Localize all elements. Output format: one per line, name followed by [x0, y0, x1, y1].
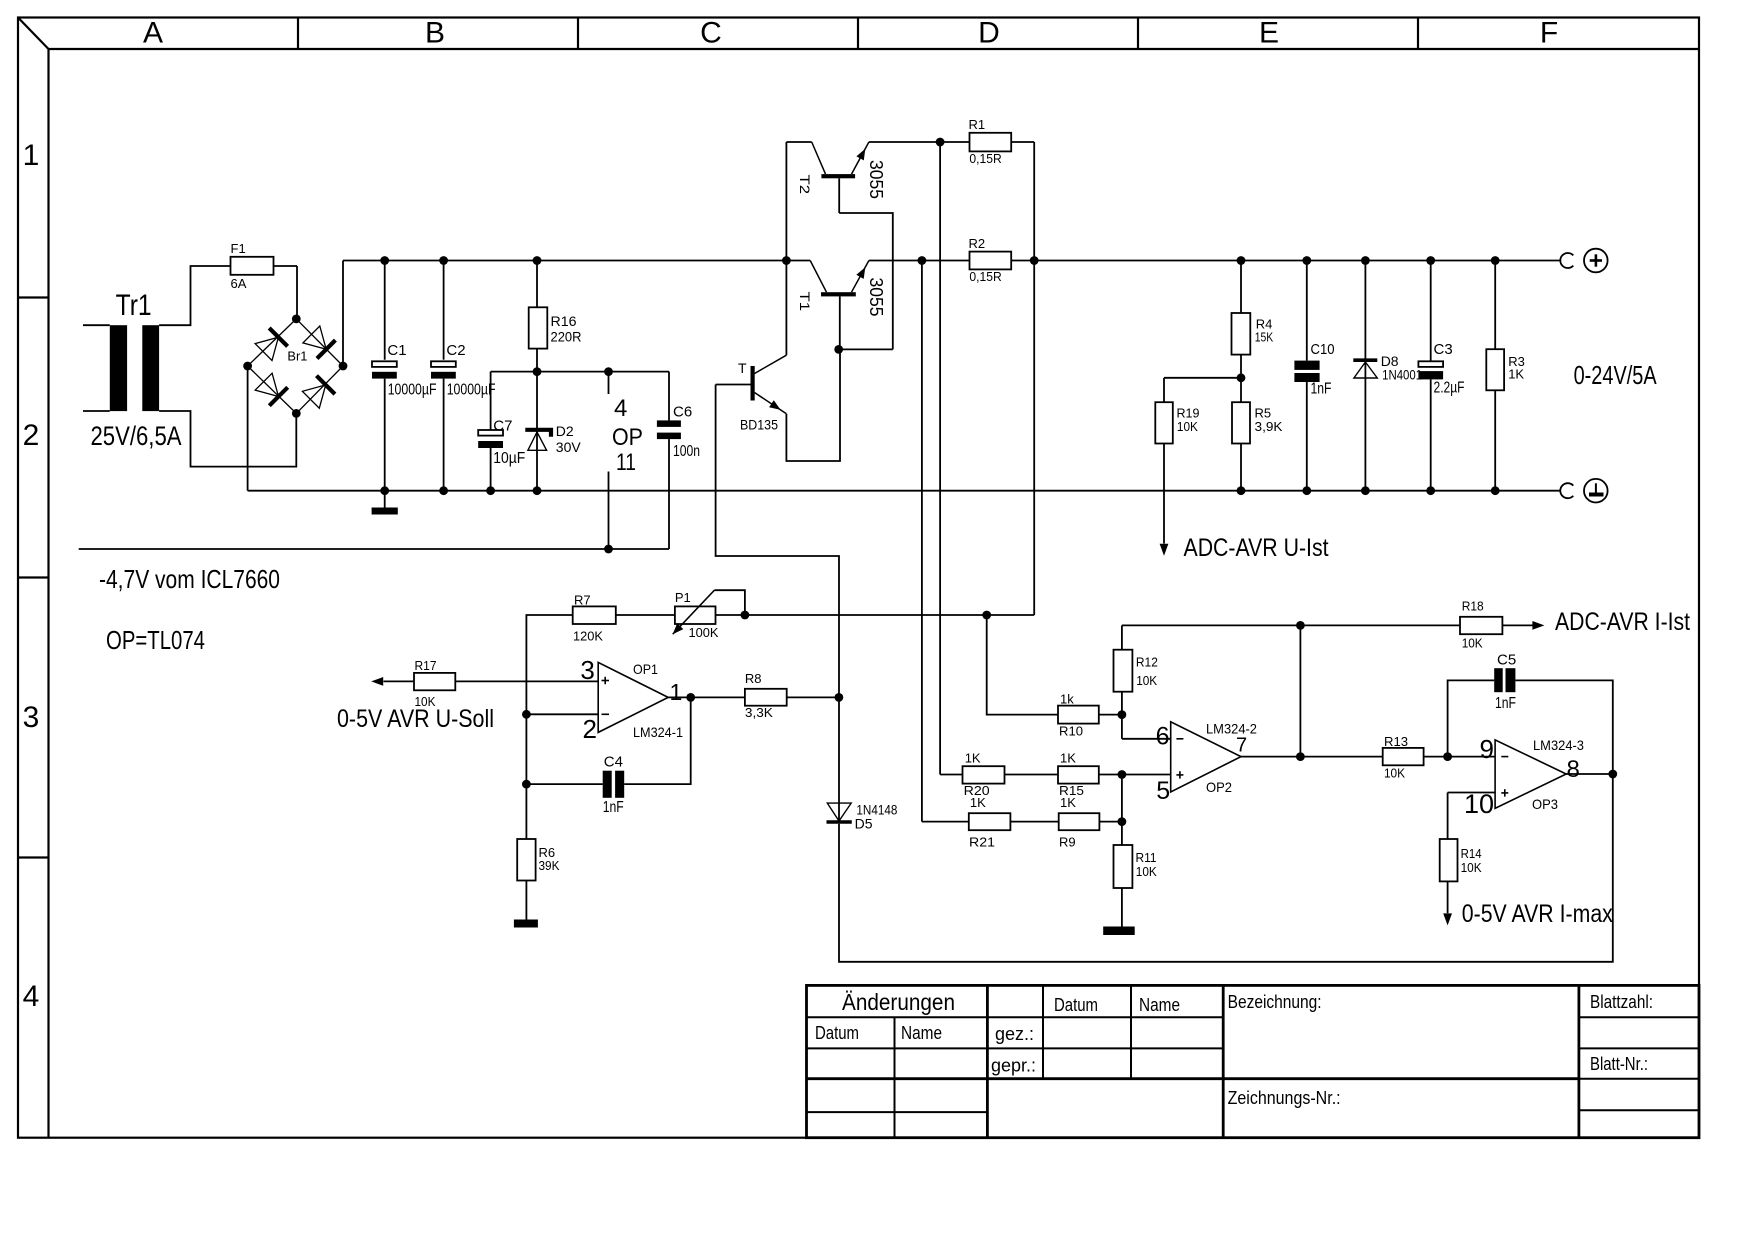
fuse F1 6A [231, 241, 274, 291]
svg-text:R9: R9 [1059, 835, 1076, 850]
junction [1361, 256, 1370, 265]
resistor R12 10K [1114, 650, 1158, 692]
svg-text:E: E [1259, 17, 1279, 50]
junction [533, 486, 542, 495]
resistor R20 1K [963, 751, 1005, 799]
wire C5 right to OP3 output [1515, 680, 1612, 774]
svg-text:1k: 1k [1060, 692, 1074, 707]
wire pin5 node down to R11 [1121, 775, 1123, 846]
wire C1 top [384, 261, 386, 360]
wire C2 bottom [443, 379, 445, 491]
svg-text:1K: 1K [965, 751, 981, 766]
svg-text:OP1: OP1 [633, 661, 658, 677]
junction [604, 367, 613, 376]
svg-text:10µF: 10µF [493, 450, 525, 467]
svg-text:10K: 10K [1136, 673, 1157, 688]
zener diode D2 30V [525, 423, 581, 455]
wire OP1 output to R8 [668, 696, 745, 698]
wire R12 bottom to OP2 pin6 [1121, 692, 1123, 739]
capacitor C10 1nF [1294, 341, 1334, 398]
svg-text:R14: R14 [1461, 846, 1482, 861]
svg-text:BD135: BD135 [740, 417, 778, 433]
wire OP2 output up to R18 line [1299, 625, 1301, 756]
transistor T1 3055 [797, 261, 886, 317]
wire base node across [839, 348, 893, 350]
svg-text:Bezeichnung:: Bezeichnung: [1228, 992, 1322, 1012]
capacitor C3 2.2uF [1418, 341, 1464, 397]
junction [1302, 256, 1311, 265]
node 0-5V AVR U-Soll input arrow [371, 677, 383, 686]
svg-text:R12: R12 [1136, 655, 1158, 670]
wire OP2 pin6 [1122, 738, 1170, 740]
svg-text:4: 4 [23, 980, 40, 1013]
junction [1118, 817, 1127, 826]
wire raw +24V rail [343, 260, 810, 262]
wire R20 to R15 [1005, 774, 1059, 776]
capacitor C4 1nF [603, 754, 624, 817]
wire C6 top [668, 372, 670, 421]
junction [1302, 486, 1311, 495]
junction [1443, 752, 1452, 761]
wire R7 left to OP1 pin2 and R6 [526, 615, 572, 839]
junction bridge AC1 node [292, 315, 301, 324]
wire T2 emitter to R1 [869, 141, 970, 143]
wire R16 top [536, 261, 538, 308]
wire BD135 base drive from OP1 output node [716, 385, 839, 698]
wire current sense line to R21 [921, 261, 923, 822]
wire fuse F1 to bridge AC1 [274, 265, 298, 267]
wire transformer secondary top to fuse F1 [159, 266, 230, 325]
wire OP pin11 supply [608, 472, 610, 550]
svg-text:P1: P1 [675, 590, 691, 605]
svg-text:2: 2 [583, 714, 597, 744]
svg-text:1: 1 [23, 139, 40, 172]
junction raw rail / T2 collector [782, 256, 791, 265]
svg-text:8: 8 [1567, 756, 1580, 783]
wire C2 top [443, 261, 445, 360]
svg-text:6: 6 [1156, 723, 1170, 751]
resistor R4 15K [1232, 313, 1274, 355]
resistor R7 120K [573, 593, 616, 644]
svg-text:15K: 15K [1255, 330, 1274, 345]
wire R9 to R11 node [1099, 821, 1122, 823]
svg-text:T2: T2 [797, 175, 813, 195]
junction [380, 256, 389, 265]
svg-text:11: 11 [616, 449, 636, 476]
node ADC-AVR U-Ist output arrow [1160, 544, 1169, 556]
junction [1030, 256, 1039, 265]
wire R19 to ADC output [1163, 444, 1165, 544]
svg-text:6A: 6A [231, 276, 247, 291]
svg-text:0-24V/5A: 0-24V/5A [1574, 360, 1658, 390]
junction T2 emitter / current sense [936, 138, 945, 147]
wire R3 bottom [1494, 390, 1496, 490]
svg-text:C2: C2 [446, 342, 465, 359]
wire arrow to R17 [384, 680, 415, 682]
svg-text:R21: R21 [969, 835, 995, 850]
wire P1 right [716, 614, 745, 616]
resistor R10 1k [1058, 692, 1099, 739]
svg-text:2: 2 [23, 419, 40, 452]
wire OP3 pin10 [1448, 792, 1496, 794]
wire C10 top [1306, 261, 1308, 361]
junction [486, 486, 495, 495]
svg-text:R17: R17 [415, 658, 437, 673]
resistor R14 10K [1440, 839, 1482, 881]
wire C3 top [1430, 261, 1432, 362]
resistor R8 3,3K [745, 671, 787, 720]
wire to R20 [940, 774, 962, 776]
wire R14 to I-max input [1447, 881, 1449, 913]
svg-text:OP=TL074: OP=TL074 [106, 625, 205, 655]
wire R16 bottom [536, 349, 538, 372]
wire R4 top [1240, 261, 1242, 314]
svg-text:1K: 1K [1060, 795, 1076, 810]
wire R1 to output rail and voltage sense [1033, 142, 1035, 615]
wire to R21 [922, 821, 969, 823]
wire C7 bottom [490, 448, 492, 491]
transistor T BD135 [738, 355, 786, 432]
svg-text:R10: R10 [1059, 724, 1083, 739]
svg-text:220R: 220R [551, 330, 582, 345]
wire output +rail [869, 260, 1561, 262]
transformer Tr1 [91, 289, 182, 451]
wire R11 bottom [1121, 888, 1123, 927]
svg-text:Datum: Datum [815, 1023, 859, 1043]
wire R18 to ADC arrow [1502, 624, 1532, 626]
junction OP3 output node [1608, 770, 1617, 779]
svg-text:F: F [1540, 17, 1558, 50]
svg-text:10: 10 [1464, 789, 1494, 819]
svg-text:D5: D5 [855, 816, 873, 832]
wire R10 to R12 node [1099, 714, 1122, 716]
junction [1118, 710, 1127, 719]
svg-text:0-5V AVR I-max: 0-5V AVR I-max [1462, 900, 1613, 928]
terminal output ground [1560, 479, 1607, 503]
wire R3 top [1494, 261, 1496, 350]
svg-text:OP: OP [612, 424, 643, 451]
svg-text:3055: 3055 [866, 160, 886, 199]
junction [439, 486, 448, 495]
junction [522, 780, 531, 789]
svg-text:C: C [700, 17, 722, 50]
wire R5 bottom [1240, 444, 1242, 491]
wire transformer primary bottom stub [83, 410, 110, 412]
svg-text:R18: R18 [1462, 599, 1484, 614]
resistor R2 0,15R [969, 236, 1012, 284]
capacitor C7 10uF [478, 418, 525, 468]
svg-text:T1: T1 [797, 292, 813, 312]
svg-text:Blattzahl:: Blattzahl: [1590, 992, 1653, 1012]
wire C10 bottom [1306, 382, 1308, 491]
resistor R21 1K [969, 795, 1011, 850]
svg-text:Br1: Br1 [287, 348, 307, 363]
ground [514, 920, 538, 928]
wire D5 cathode to OP3 output [839, 774, 1613, 962]
wire C6 bottom to -4.7V net [668, 439, 670, 549]
op-amp U2 OP2 LM324-2 [1156, 721, 1257, 805]
node ADC-AVR I-Ist output arrow [1532, 621, 1544, 630]
svg-text:25V/6,5A: 25V/6,5A [91, 421, 182, 451]
resistor R17 10K [414, 658, 455, 709]
wire R8 to BD135 drive node [787, 696, 839, 698]
svg-text:C3: C3 [1434, 341, 1453, 358]
bridge rectifier Br1 [248, 319, 343, 414]
svg-text:LM324-1: LM324-1 [633, 725, 683, 740]
wire feedback node to output sense line [745, 614, 1034, 616]
svg-text:10K: 10K [1384, 766, 1405, 781]
svg-text:Änderungen: Änderungen [842, 989, 955, 1015]
ground [372, 491, 398, 515]
junction [1361, 486, 1370, 495]
svg-text:R1: R1 [969, 117, 986, 132]
svg-text:4: 4 [614, 395, 627, 422]
wire OP pin4 supply [608, 372, 610, 394]
wire R13 to OP3 pin9 [1424, 756, 1496, 758]
wire C4 right to OP1 output [624, 697, 691, 784]
wire OP2 output to R13 [1241, 756, 1383, 758]
terminal output plus [1560, 249, 1607, 273]
svg-text:Zeichnungs-Nr.:: Zeichnungs-Nr.: [1228, 1088, 1341, 1108]
wire 0V rail [248, 490, 1561, 492]
wire P1 wiper to feedback node [714, 590, 745, 615]
resistor R6 39K [517, 839, 560, 881]
resistor R5 3,9K [1232, 402, 1283, 443]
resistor R11 10K [1114, 845, 1158, 888]
svg-text:D2: D2 [556, 423, 574, 439]
junction [1491, 486, 1500, 495]
wire R21 to R9 [1010, 821, 1058, 823]
svg-text:10K: 10K [1136, 864, 1157, 879]
wire OP3 output [1566, 773, 1613, 775]
resistor R9 1K [1059, 795, 1100, 850]
junction [604, 545, 613, 554]
svg-text:10K: 10K [1462, 636, 1483, 651]
wire up to T2 base [839, 213, 893, 349]
node 0-5V AVR I-max input arrow [1443, 913, 1452, 925]
svg-text:Name: Name [901, 1023, 942, 1043]
wire R17 to OP1 pin3 [455, 680, 598, 682]
svg-text:2.2µF: 2.2µF [1434, 380, 1465, 397]
junction [835, 693, 844, 702]
op-amp U1 OP1 LM324-1 [580, 655, 683, 744]
diode D8 1N4001 [1353, 353, 1422, 382]
junction bridge plus node [339, 362, 348, 371]
svg-text:10000µF: 10000µF [447, 382, 496, 399]
svg-text:gez.:: gez.: [995, 1024, 1034, 1044]
svg-text:1N4001: 1N4001 [1382, 366, 1422, 382]
svg-text:R8: R8 [745, 671, 762, 686]
wire bridge minus down to 0V rail [247, 366, 249, 491]
svg-text:0,15R: 0,15R [969, 151, 1001, 166]
resistor R13 10K [1383, 734, 1424, 781]
svg-text:R11: R11 [1136, 850, 1157, 865]
resistor R3 1K [1486, 349, 1525, 390]
svg-text:C1: C1 [387, 342, 406, 359]
transistor T2 3055 [797, 142, 886, 199]
svg-text:9: 9 [1480, 734, 1494, 764]
junction [1296, 621, 1305, 630]
capacitor C1 10000uF [372, 342, 437, 398]
svg-text:LM324-2: LM324-2 [1206, 721, 1257, 736]
svg-text:10000µF: 10000µF [388, 382, 437, 399]
wire R12 top [1121, 625, 1123, 649]
svg-text:ADC-AVR I-Ist: ADC-AVR I-Ist [1555, 608, 1690, 636]
svg-text:3,3K: 3,3K [745, 705, 773, 720]
resistor R18 10K [1460, 599, 1502, 651]
wire T2 base stub [838, 178, 840, 213]
svg-text:1K: 1K [1508, 367, 1524, 382]
wire C1 bottom [384, 379, 386, 491]
junction [1426, 256, 1435, 265]
wire transformer primary top stub [83, 324, 110, 326]
potentiometer P1 100K [673, 590, 719, 640]
svg-text:F1: F1 [231, 241, 246, 256]
svg-text:Name: Name [1139, 995, 1180, 1015]
diode D5 1N4148 [827, 802, 898, 832]
svg-text:1K: 1K [1060, 751, 1076, 766]
svg-text:3: 3 [23, 701, 40, 734]
svg-text:39K: 39K [539, 858, 560, 873]
wire R12 feedback to R18 / OP2 output [1122, 624, 1460, 626]
svg-text:3,9K: 3,9K [1255, 419, 1283, 434]
svg-text:R13: R13 [1384, 734, 1408, 749]
wire OP supply node [491, 371, 669, 373]
wire R6 bottom [525, 881, 527, 920]
wire R4 bottom to R5 [1240, 355, 1242, 403]
svg-text:1K: 1K [970, 795, 986, 810]
junction [439, 256, 448, 265]
junction [522, 710, 531, 719]
junction [380, 486, 389, 495]
wire voltage setpoint to R10 [987, 615, 1058, 715]
junction [1491, 256, 1500, 265]
wire R7 to P1 [616, 614, 675, 616]
wire C7 top [490, 372, 492, 430]
resistor R1 0,15R [969, 117, 1012, 166]
svg-text:R7: R7 [574, 593, 591, 608]
wire down to bridge AC1 node [296, 266, 298, 319]
wire D2 cathode-anode [536, 372, 538, 491]
wire OP1 pin2 [526, 713, 598, 715]
svg-text:30V: 30V [556, 439, 582, 455]
svg-text:Tr1: Tr1 [116, 289, 152, 322]
junction bridge minus node [243, 362, 252, 371]
ground [1103, 927, 1135, 936]
junction [982, 611, 991, 620]
svg-text:1nF: 1nF [603, 799, 624, 816]
svg-text:1nF: 1nF [1495, 695, 1516, 712]
resistor R16 220R [529, 307, 582, 348]
svg-text:C4: C4 [604, 754, 623, 771]
junction [533, 367, 542, 376]
wire D5 anode from OP1 output node [838, 697, 840, 822]
wire BD135 collector up to T2 collector [785, 142, 787, 355]
wire bridge plus up to raw +rail [342, 261, 344, 367]
svg-text:0,15R: 0,15R [969, 269, 1001, 284]
svg-text:D: D [978, 17, 1000, 50]
svg-text:R16: R16 [551, 314, 577, 329]
junction [834, 345, 843, 354]
svg-text:LM324-3: LM324-3 [1533, 738, 1584, 753]
junction [533, 256, 542, 265]
wire transformer secondary bottom to bridge AC2 node [159, 411, 296, 467]
junction [1426, 486, 1435, 495]
svg-text:1nF: 1nF [1311, 381, 1332, 398]
wire BD135 emitter to T1 T2 base node [786, 349, 840, 461]
wire T2 emitter sense line to R20 [939, 142, 941, 775]
wire R15 to OP2 pin5 [1099, 774, 1170, 776]
svg-text:100n: 100n [673, 443, 700, 460]
capacitor C6 100n [657, 404, 700, 461]
capacitor C2 10000uF [431, 342, 496, 398]
svg-text:7: 7 [1236, 735, 1247, 757]
wire C5 left from R13 node [1448, 680, 1495, 756]
svg-text:OP2: OP2 [1206, 779, 1232, 795]
svg-text:1: 1 [670, 679, 683, 705]
junction [741, 611, 750, 620]
svg-text:A: A [143, 17, 163, 50]
wire R1 right [1011, 141, 1034, 143]
svg-text:100K: 100K [689, 625, 719, 640]
svg-text:10K: 10K [1461, 860, 1482, 875]
svg-text:5: 5 [1156, 777, 1170, 805]
svg-text:C5: C5 [1497, 652, 1516, 669]
op-amp supply pins 4 OP 11 [612, 395, 643, 476]
wire T1 base stub [839, 296, 841, 349]
svg-text:gepr.:: gepr.: [991, 1056, 1036, 1076]
wire C4 left [526, 783, 602, 785]
svg-text:C7: C7 [493, 418, 512, 435]
svg-text:Blatt-Nr.:: Blatt-Nr.: [1590, 1054, 1648, 1074]
svg-text:-4,7V vom ICL7660: -4,7V vom ICL7660 [99, 564, 280, 594]
svg-text:ADC-AVR U-Ist: ADC-AVR U-Ist [1184, 534, 1329, 562]
svg-text:10K: 10K [1177, 419, 1198, 434]
junction bridge AC2 node [292, 409, 301, 418]
resistor R19 10K [1155, 402, 1199, 443]
svg-text:0-5V AVR U-Soll: 0-5V AVR U-Soll [337, 705, 494, 733]
svg-text:120K: 120K [573, 629, 603, 644]
svg-text:3: 3 [580, 655, 594, 685]
wire pin10 down to R14 [1447, 793, 1449, 840]
svg-text:T: T [738, 360, 747, 376]
wire divider tap to R19 [1164, 377, 1241, 379]
op-amp U3 OP3 LM324-3 [1464, 734, 1584, 819]
wire R19 top [1163, 378, 1165, 402]
junction [686, 693, 695, 702]
junction output rail current sense tap [918, 256, 927, 265]
svg-text:B: B [425, 17, 445, 50]
svg-text:3055: 3055 [866, 278, 886, 317]
wire BD135 base [716, 384, 751, 386]
svg-text:OP3: OP3 [1532, 796, 1558, 812]
junction [1118, 770, 1127, 779]
capacitor C5 1nF [1494, 652, 1516, 713]
svg-text:Datum: Datum [1054, 995, 1098, 1015]
wire D8 cathode-anode [1364, 261, 1366, 491]
wire C3 bottom [1430, 379, 1432, 490]
svg-text:R2: R2 [969, 236, 986, 251]
wire -4.7V net [79, 548, 669, 550]
wire T2 collector [786, 141, 811, 143]
svg-text:C6: C6 [673, 404, 692, 421]
svg-text:C10: C10 [1311, 341, 1335, 358]
resistor R15 1K [1058, 751, 1099, 799]
junction [1237, 256, 1246, 265]
junction [1237, 486, 1246, 495]
junction [1296, 752, 1305, 761]
junction [1237, 373, 1246, 382]
